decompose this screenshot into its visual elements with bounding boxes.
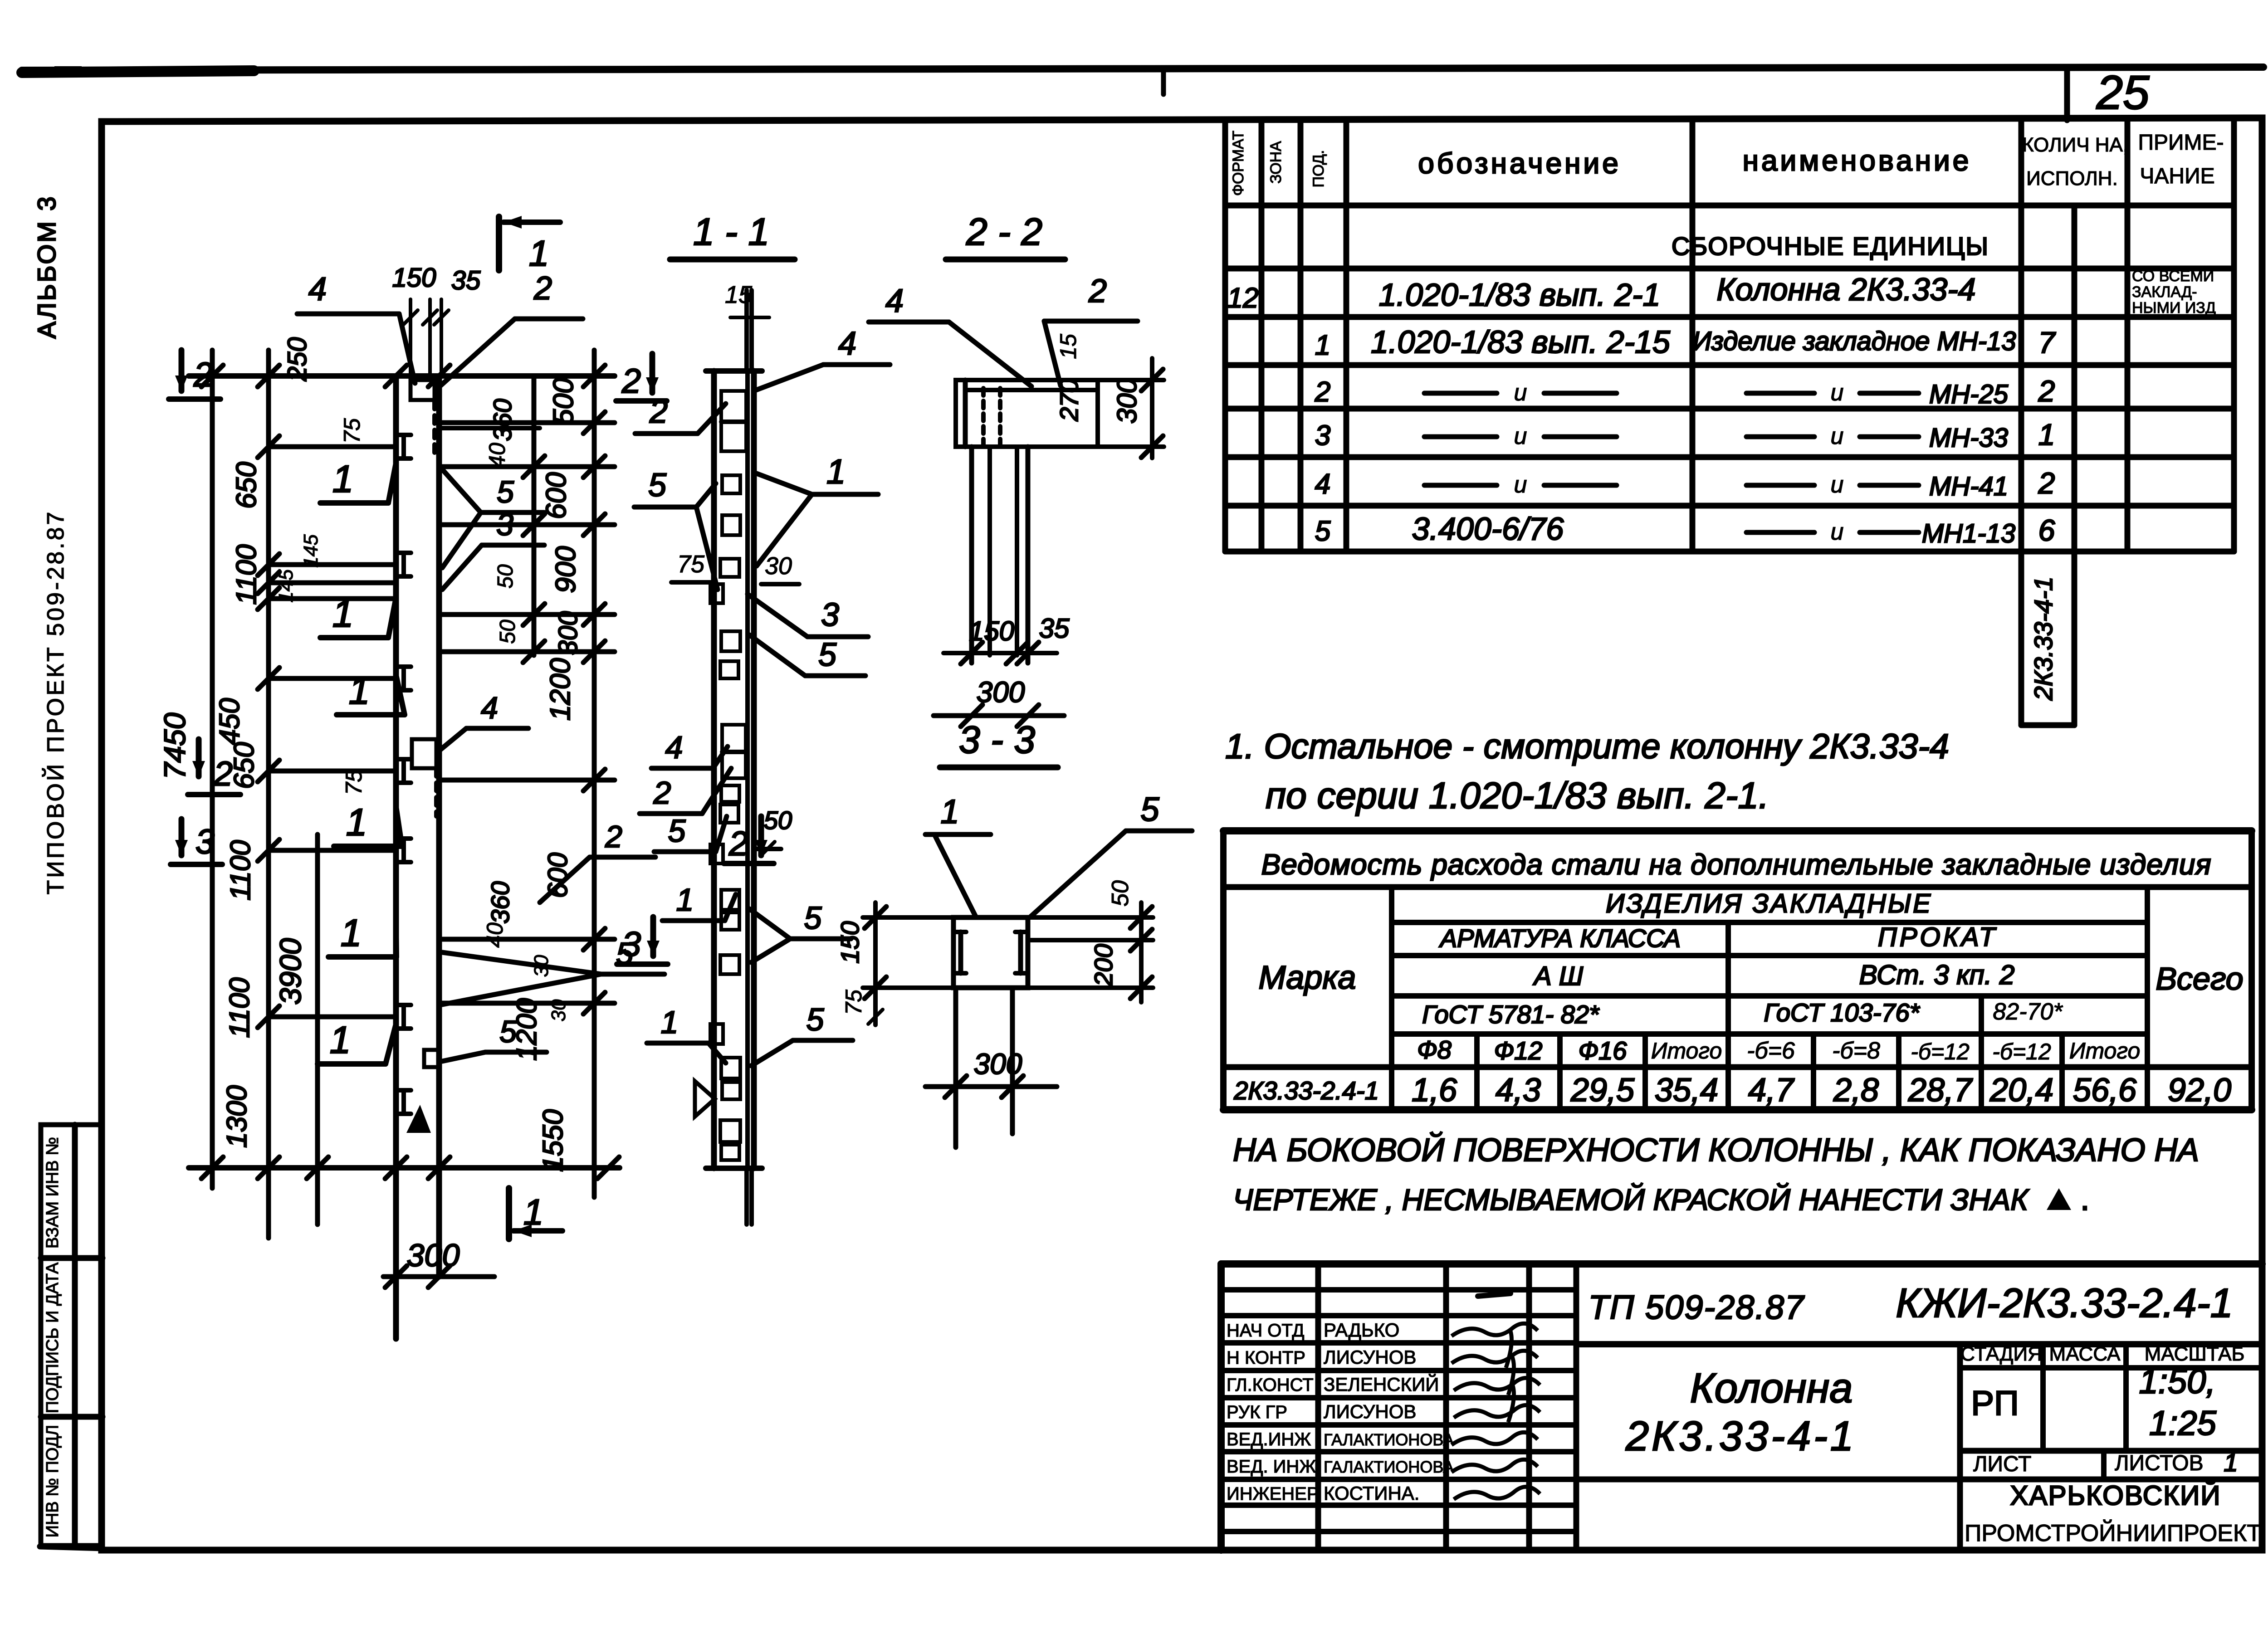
- svg-text:АРМАТУРА КЛАССА: АРМАТУРА КЛАССА: [1439, 924, 1681, 952]
- svg-text:и: и: [1831, 380, 1844, 406]
- svg-text:ИЗДЕЛИЯ ЗАКЛАДНЫЕ: ИЗДЕЛИЯ ЗАКЛАДНЫЕ: [1606, 889, 1932, 918]
- svg-text:РАДЬКО: РАДЬКО: [1324, 1319, 1399, 1341]
- svg-text:КОЛИЧ НА,: КОЛИЧ НА,: [2022, 134, 2128, 156]
- svg-text:2: 2: [193, 356, 213, 394]
- svg-text:3: 3: [622, 925, 641, 964]
- svg-text:5: 5: [818, 637, 837, 673]
- svg-text:Ф16: Ф16: [1579, 1036, 1628, 1065]
- svg-text:500: 500: [548, 378, 579, 424]
- section 2-2 lower stems: [969, 447, 974, 663]
- svg-text:5: 5: [1140, 790, 1159, 828]
- svg-text:2: 2: [2038, 466, 2055, 500]
- svg-text:и: и: [1514, 472, 1527, 498]
- svg-text:35: 35: [1039, 613, 1070, 644]
- svg-text:150: 150: [836, 921, 864, 963]
- svg-text:1100: 1100: [231, 544, 262, 605]
- svg-text:2,8: 2,8: [1833, 1072, 1879, 1108]
- svg-text:-б=12: -б=12: [1911, 1039, 1970, 1064]
- title block signature grid: [1315, 1264, 1321, 1550]
- svg-text:300: 300: [553, 611, 583, 655]
- svg-text:АЛЬБОМ 3: АЛЬБОМ 3: [32, 195, 61, 338]
- svg-text:2К3.33-4-1: 2К3.33-4-1: [2029, 577, 2058, 701]
- svg-text:40: 40: [484, 443, 510, 468]
- svg-text:4: 4: [1315, 468, 1330, 500]
- svg-text:обозначение: обозначение: [1418, 147, 1621, 180]
- spec table grid: [1222, 120, 1228, 551]
- svg-text:450: 450: [214, 698, 245, 745]
- svg-text:Колонна: Колонна: [1690, 1365, 1853, 1411]
- svg-text:3: 3: [821, 597, 839, 633]
- svg-text:ЧЕРТЕЖЕ , НЕСМЫВАЕМОЙ КРАСКОЙ: ЧЕРТЕЖЕ , НЕСМЫВАЕМОЙ КРАСКОЙ НАНЕСТИ ЗН…: [1233, 1182, 2029, 1216]
- section 2-2 body: [956, 380, 1098, 447]
- svg-text:2К3.33-4-1: 2К3.33-4-1: [1625, 1413, 1856, 1459]
- svg-text:2: 2: [1315, 376, 1330, 408]
- right tier lines: [439, 420, 615, 425]
- svg-text:-б=6: -б=6: [1747, 1038, 1795, 1064]
- svg-text:30: 30: [547, 999, 570, 1021]
- svg-text:1550: 1550: [538, 1109, 569, 1172]
- svg-text:5: 5: [804, 900, 822, 936]
- svg-text:1: 1: [349, 669, 370, 712]
- svg-text:КЖИ-2К3.33-2.4-1: КЖИ-2К3.33-2.4-1: [1896, 1281, 2233, 1326]
- top rule tick: [1161, 72, 1166, 94]
- section 1-1 open triangle mark: [695, 1081, 715, 1117]
- column top plate: [411, 380, 435, 400]
- svg-text:ЛИСТОВ: ЛИСТОВ: [2115, 1451, 2204, 1475]
- svg-text:ЛИСУНОВ: ЛИСУНОВ: [1324, 1401, 1416, 1422]
- svg-text:ГЛ.КОНСТ: ГЛ.КОНСТ: [1227, 1375, 1314, 1395]
- svg-text:А Ш: А Ш: [1533, 961, 1584, 991]
- section 1-1 axis lines: [744, 290, 749, 371]
- svg-text:75: 75: [339, 418, 365, 444]
- section 3-3 bottom dim 300: [953, 988, 958, 1147]
- svg-text:3 - 3: 3 - 3: [959, 718, 1035, 761]
- right dim line outer: [592, 350, 597, 1197]
- svg-text:-б=12: -б=12: [1992, 1039, 2051, 1064]
- svg-text:50: 50: [1107, 880, 1134, 907]
- sidebar stamp boxes: [41, 1125, 103, 1546]
- svg-text:МН-41: МН-41: [1929, 472, 2008, 501]
- svg-text:6: 6: [2038, 513, 2055, 547]
- column middle plate: [412, 739, 436, 768]
- svg-text:ВЗАМ ИНВ №: ВЗАМ ИНВ №: [43, 1137, 62, 1249]
- svg-text:2: 2: [213, 755, 233, 793]
- svg-text:НА БОКОВОЙ ПОВЕРХНОСТИ КОЛОННЫ: НА БОКОВОЙ ПОВЕРХНОСТИ КОЛОННЫ , КАК ПОК…: [1233, 1132, 2199, 1168]
- svg-text:1: 1: [529, 233, 549, 273]
- svg-text:1:50,: 1:50,: [2139, 1362, 2215, 1401]
- svg-text:2К3.33-2.4-1: 2К3.33-2.4-1: [1233, 1076, 1378, 1105]
- svg-text:20,4: 20,4: [1989, 1072, 2053, 1108]
- svg-text:5: 5: [497, 475, 514, 509]
- svg-text:ИНЖЕНЕР: ИНЖЕНЕР: [1227, 1484, 1319, 1504]
- svg-text:Колонна 2К3.33-4: Колонна 2К3.33-4: [1716, 272, 1975, 307]
- svg-text:7450: 7450: [158, 712, 191, 779]
- svg-text:1: 1: [332, 592, 354, 635]
- svg-text:4: 4: [838, 326, 856, 362]
- svg-text:Ведомость расхода стали на доп: Ведомость расхода стали на дополнительны…: [1261, 848, 2211, 881]
- svg-text:2: 2: [649, 394, 668, 430]
- column bottom plate: [424, 1050, 439, 1067]
- svg-text:1: 1: [676, 882, 694, 917]
- svg-text:150: 150: [392, 263, 436, 293]
- svg-text:3.400-6/76: 3.400-6/76: [1412, 511, 1564, 546]
- svg-text:ИНВ № ПОДЛ: ИНВ № ПОДЛ: [43, 1425, 62, 1538]
- svg-text:3: 3: [1315, 420, 1330, 451]
- bottom sheet edge: [40, 1546, 103, 1548]
- svg-text:270: 270: [1055, 379, 1083, 421]
- svg-text:и: и: [1831, 472, 1844, 498]
- svg-text:1.020-1/83 вып. 2-1: 1.020-1/83 вып. 2-1: [1379, 277, 1661, 312]
- svg-text:2: 2: [605, 819, 622, 854]
- svg-text:ГАЛАКТИОНОВА: ГАЛАКТИОНОВА: [1324, 1458, 1454, 1476]
- svg-text:145: 145: [300, 534, 322, 568]
- svg-text:и: и: [1514, 380, 1527, 406]
- svg-text:ГоСТ 103-76*: ГоСТ 103-76*: [1764, 998, 1921, 1027]
- svg-text:1100: 1100: [225, 840, 256, 900]
- svg-text:50: 50: [496, 619, 520, 644]
- svg-text:ИСПОЛН.: ИСПОЛН.: [2026, 167, 2118, 190]
- svg-text:1,6: 1,6: [1412, 1072, 1457, 1108]
- svg-text:1: 1: [523, 1192, 544, 1232]
- svg-text:56,6: 56,6: [2073, 1072, 2137, 1108]
- svg-text:1: 1: [332, 458, 354, 500]
- svg-text:40: 40: [482, 922, 508, 948]
- section 3-3 body: [953, 917, 1028, 988]
- svg-text:360: 360: [488, 399, 517, 441]
- svg-text:ТП 509-28.87: ТП 509-28.87: [1589, 1288, 1805, 1326]
- svg-text:1: 1: [2224, 1448, 2238, 1477]
- svg-text:ВЕД.ИНЖ: ВЕД.ИНЖ: [1227, 1429, 1311, 1449]
- svg-text:ФОРМАТ: ФОРМАТ: [1230, 131, 1247, 196]
- paint note triangle glyph: [2047, 1188, 2071, 1210]
- svg-text:ЛИСУНОВ: ЛИСУНОВ: [1324, 1346, 1416, 1368]
- svg-text:1: 1: [826, 453, 846, 491]
- svg-text:КОСТИНА.: КОСТИНА.: [1324, 1483, 1419, 1504]
- title block right grid: [1576, 1341, 2262, 1347]
- svg-text:75: 75: [341, 770, 367, 795]
- svg-text:5: 5: [1315, 516, 1331, 547]
- svg-text:НАЧ ОТД: НАЧ ОТД: [1227, 1321, 1305, 1341]
- svg-text:50: 50: [494, 564, 518, 589]
- svg-text:ГАЛАКТИОНОВА: ГАЛАКТИОНОВА: [1324, 1430, 1454, 1449]
- svg-text:1: 1: [661, 1005, 679, 1040]
- svg-text:ЗЕЛЕНСКИЙ: ЗЕЛЕНСКИЙ: [1324, 1373, 1439, 1395]
- svg-text:и: и: [1514, 423, 1527, 449]
- svg-text:4: 4: [885, 283, 904, 319]
- svg-text:12: 12: [1227, 283, 1259, 314]
- svg-text:3900: 3900: [274, 938, 307, 1005]
- svg-text:75: 75: [677, 551, 705, 578]
- svg-text:1: 1: [346, 801, 367, 844]
- column right edge: [436, 376, 442, 1277]
- svg-text:РУК ГР: РУК ГР: [1227, 1402, 1287, 1422]
- svg-text:250: 250: [283, 337, 312, 382]
- svg-text:75: 75: [841, 990, 866, 1015]
- column bottom line: [189, 1165, 620, 1171]
- page number box line: [2064, 68, 2070, 120]
- svg-text:1.020-1/83 вып. 2-15: 1.020-1/83 вып. 2-15: [1371, 324, 1671, 360]
- section mark 1 bottom: [506, 1188, 512, 1239]
- svg-text:МН-33: МН-33: [1929, 423, 2008, 453]
- svg-text:30: 30: [765, 552, 792, 580]
- svg-text:28,7: 28,7: [1908, 1072, 1973, 1108]
- svg-text:360: 360: [486, 881, 514, 923]
- svg-text:92,0: 92,0: [2168, 1072, 2231, 1108]
- svg-text:5: 5: [648, 467, 667, 503]
- section mark 3 left: [179, 819, 185, 855]
- svg-text:2: 2: [728, 824, 748, 863]
- svg-text:1. Остальное - смотрите колонн: 1. Остальное - смотрите колонну 2К3.33-4: [1225, 727, 1949, 766]
- svg-text:Изделие закладное МН-13: Изделие закладное МН-13: [1692, 327, 2016, 356]
- svg-text:и: и: [1831, 519, 1844, 545]
- signature dash: [1478, 1293, 1510, 1296]
- svg-text:ПРОМСТРОЙНИИПРОЕКТ: ПРОМСТРОЙНИИПРОЕКТ: [1965, 1520, 2261, 1546]
- left tier lines: [269, 444, 396, 449]
- elevation outer dim line 7450: [210, 350, 215, 1188]
- svg-text:300: 300: [407, 1238, 460, 1273]
- svg-text:ХАРЬКОВСКИЙ: ХАРЬКОВСКИЙ: [2010, 1480, 2221, 1511]
- svg-text:РП: РП: [1971, 1384, 2019, 1423]
- svg-text:ВЕД. ИНЖ: ВЕД. ИНЖ: [1227, 1457, 1316, 1477]
- svg-text:1: 1: [2038, 418, 2055, 451]
- svg-text:7: 7: [2038, 326, 2056, 359]
- svg-text:4,7: 4,7: [1748, 1072, 1795, 1108]
- svg-text:ТИПОВОЙ ПРОЕКТ 509-28.87: ТИПОВОЙ ПРОЕКТ 509-28.87: [42, 510, 69, 895]
- svg-text:МАСШТАБ: МАСШТАБ: [2145, 1343, 2245, 1365]
- svg-text:МН1-13: МН1-13: [1922, 519, 2015, 548]
- svg-text:ПОД.: ПОД.: [1310, 150, 1327, 188]
- svg-text:СТАДИЯ: СТАДИЯ: [1960, 1343, 2042, 1365]
- section 1-1 embedded plates: [721, 391, 746, 451]
- section 1-1 bar: [711, 371, 717, 1168]
- svg-text:ЛИСТ: ЛИСТ: [1973, 1452, 2031, 1476]
- section mark 1 top: [496, 217, 502, 270]
- svg-text:1: 1: [330, 1019, 351, 1061]
- svg-text:1200: 1200: [545, 658, 576, 721]
- svg-text:ПОДПИСЬ И ДАТА: ПОДПИСЬ И ДАТА: [43, 1262, 62, 1413]
- svg-text:по серии 1.020-1/83 вып. 2-1.: по серии 1.020-1/83 вып. 2-1.: [1266, 775, 1769, 816]
- svg-text:ГоСТ 5781- 82*: ГоСТ 5781- 82*: [1422, 1000, 1600, 1029]
- svg-text:1 - 1: 1 - 1: [693, 210, 769, 253]
- svg-text:2: 2: [653, 775, 671, 810]
- svg-text:СО ВСЕМИ: СО ВСЕМИ: [2132, 268, 2214, 285]
- svg-text:ЗАКЛАД-: ЗАКЛАД-: [2132, 283, 2197, 301]
- svg-text:2 - 2: 2 - 2: [966, 210, 1042, 253]
- svg-text:300: 300: [974, 1048, 1022, 1080]
- svg-text:2: 2: [621, 362, 641, 400]
- svg-text:15: 15: [1056, 334, 1081, 359]
- paint mark triangle on column: [406, 1105, 431, 1133]
- svg-text:82-70*: 82-70*: [1993, 999, 2063, 1025]
- svg-text:Итого: Итого: [1651, 1038, 1722, 1063]
- svg-text:145: 145: [275, 569, 297, 603]
- svg-text:200: 200: [1089, 944, 1118, 986]
- svg-text:МН-25: МН-25: [1929, 380, 2009, 409]
- svg-text:25: 25: [2096, 66, 2150, 119]
- svg-text:Н КОНТР: Н КОНТР: [1227, 1348, 1305, 1368]
- svg-text:650: 650: [229, 742, 260, 789]
- svg-text:ЗОНА: ЗОНА: [1267, 141, 1285, 184]
- svg-text:1300: 1300: [221, 1085, 253, 1148]
- svg-text:1100: 1100: [224, 977, 255, 1038]
- svg-text:ВСт. 3 кп. 2: ВСт. 3 кп. 2: [1859, 960, 2015, 990]
- svg-text:МАССА: МАССА: [2049, 1343, 2121, 1365]
- svg-text:.: .: [2080, 1180, 2090, 1217]
- section mark 2 left upper: [179, 350, 185, 391]
- tag box 2K3.33-4-1: [2019, 551, 2024, 725]
- svg-text:наименование: наименование: [1743, 144, 1972, 177]
- svg-text:5: 5: [807, 1002, 825, 1037]
- elevation dim line 3900: [315, 834, 320, 1224]
- svg-text:-б=8: -б=8: [1832, 1038, 1880, 1064]
- svg-text:Ф8: Ф8: [1417, 1035, 1452, 1064]
- svg-text:35: 35: [451, 266, 481, 295]
- steel table grid: [1223, 827, 2252, 834]
- svg-text:5: 5: [668, 813, 686, 849]
- svg-text:15: 15: [725, 281, 753, 308]
- svg-text:1: 1: [940, 793, 959, 830]
- svg-text:3: 3: [196, 823, 215, 861]
- top rule: [22, 67, 2263, 70]
- svg-text:2: 2: [1088, 273, 1107, 309]
- svg-text:1:25: 1:25: [2149, 1404, 2217, 1443]
- svg-text:ПРОКАТ: ПРОКАТ: [1878, 922, 1998, 952]
- svg-text:2: 2: [2038, 374, 2055, 408]
- title block outer: [1221, 1260, 2262, 1268]
- column left edge: [393, 376, 399, 1339]
- svg-text:29,5: 29,5: [1570, 1072, 1635, 1108]
- svg-text:Итого: Итого: [2069, 1038, 2141, 1063]
- column top small dim lines: [409, 299, 412, 376]
- section 3-3 right dims: [1028, 915, 1153, 920]
- svg-text:Марка: Марка: [1259, 960, 1356, 996]
- svg-text:300: 300: [1112, 378, 1142, 424]
- column top line: [189, 373, 615, 379]
- svg-text:ПРИМЕ-: ПРИМЕ-: [2138, 131, 2224, 155]
- svg-text:4: 4: [308, 271, 327, 307]
- svg-text:СБОРОЧНЫЕ ЕДИНИЦЫ: СБОРОЧНЫЕ ЕДИНИЦЫ: [1672, 232, 1989, 260]
- svg-text:НЫМИ ИЗД: НЫМИ ИЗД: [2132, 299, 2216, 317]
- svg-text:650: 650: [231, 462, 262, 508]
- svg-text:3: 3: [496, 507, 513, 542]
- column weld marks: [401, 435, 406, 458]
- svg-text:5: 5: [499, 1015, 517, 1049]
- svg-text:Ф12: Ф12: [1494, 1036, 1543, 1065]
- elevation inner dim line: [266, 350, 271, 1238]
- svg-text:4: 4: [481, 691, 498, 725]
- svg-text:1: 1: [1315, 330, 1330, 361]
- svg-text:4,3: 4,3: [1496, 1072, 1541, 1108]
- svg-text:900: 900: [550, 546, 582, 593]
- svg-text:Всего: Всего: [2156, 961, 2243, 996]
- section 3-3 left dims: [863, 915, 953, 920]
- svg-text:2: 2: [533, 270, 552, 307]
- right dim line inner: [532, 376, 537, 655]
- svg-text:ЧАНИЕ: ЧАНИЕ: [2140, 164, 2214, 188]
- svg-text:4: 4: [665, 730, 683, 765]
- svg-text:1: 1: [341, 912, 362, 954]
- svg-text:и: и: [1831, 423, 1844, 449]
- svg-text:50: 50: [764, 806, 792, 834]
- section mark 2 left lower: [196, 739, 202, 776]
- svg-text:150: 150: [969, 616, 1014, 646]
- svg-text:35,4: 35,4: [1655, 1072, 1718, 1108]
- signature squiggles: [1452, 1323, 1538, 1336]
